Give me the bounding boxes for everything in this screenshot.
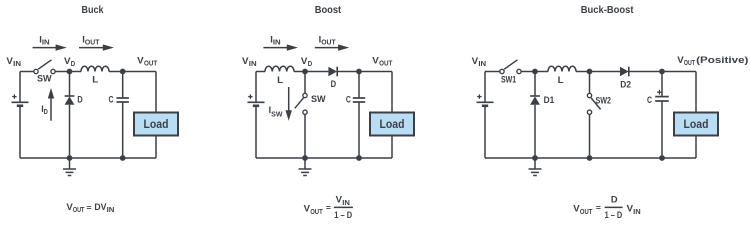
svg-text:C: C — [346, 93, 351, 104]
svg-text:Buck-Boost: Buck-Boost — [581, 5, 634, 16]
svg-text:L: L — [92, 74, 98, 85]
svg-text:OUT: OUT — [144, 60, 158, 67]
svg-text:L: L — [558, 74, 564, 85]
svg-text:OUT: OUT — [310, 209, 323, 216]
svg-text:IN: IN — [42, 40, 50, 47]
svg-text:SW1: SW1 — [501, 73, 516, 84]
svg-text:DV: DV — [94, 201, 107, 212]
svg-text:SW: SW — [311, 94, 326, 104]
svg-text:IN: IN — [107, 207, 115, 214]
svg-text:IN: IN — [273, 40, 281, 47]
svg-text:=: = — [596, 202, 601, 212]
svg-text:IN: IN — [249, 61, 257, 68]
svg-text:Load: Load — [144, 119, 169, 131]
svg-text:OUT: OUT — [321, 40, 336, 47]
svg-text:1 – D: 1 – D — [334, 209, 352, 220]
svg-text:SW2: SW2 — [596, 95, 612, 106]
svg-text:OUT: OUT — [85, 40, 100, 47]
svg-text:OUT: OUT — [580, 209, 593, 216]
svg-text:D: D — [331, 78, 337, 89]
svg-text:D: D — [44, 109, 48, 116]
svg-text:Boost: Boost — [315, 5, 342, 16]
svg-text:D: D — [77, 94, 83, 105]
svg-text:D: D — [308, 61, 312, 68]
svg-text:OUT: OUT — [684, 60, 696, 67]
svg-text:SW: SW — [37, 73, 52, 83]
svg-text:C: C — [109, 93, 114, 104]
svg-text:(Positive): (Positive) — [696, 54, 748, 65]
svg-text:Buck: Buck — [82, 5, 104, 16]
svg-text:D: D — [71, 61, 75, 68]
svg-text:D2: D2 — [620, 79, 631, 90]
svg-text:IN: IN — [342, 200, 350, 207]
svg-text:D1: D1 — [544, 94, 555, 105]
svg-text:OUT: OUT — [73, 207, 85, 214]
svg-text:=: = — [87, 202, 92, 212]
svg-text:D: D — [611, 194, 618, 205]
svg-text:1 – D: 1 – D — [605, 209, 623, 220]
svg-text:L: L — [277, 74, 283, 85]
svg-text:Load: Load — [380, 119, 405, 131]
svg-text:SW: SW — [271, 112, 283, 119]
svg-text:Load: Load — [684, 119, 709, 131]
svg-text:=: = — [326, 202, 331, 212]
svg-text:IN: IN — [13, 61, 21, 68]
svg-text:IN: IN — [478, 61, 486, 68]
svg-text:C: C — [647, 94, 652, 105]
svg-text:OUT: OUT — [379, 60, 393, 67]
svg-text:IN: IN — [633, 209, 641, 216]
